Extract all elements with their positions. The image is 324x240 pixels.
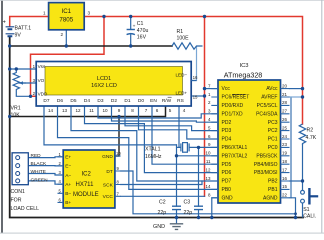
wire: CON1 GREEN to HX711 A+ — [28, 181, 63, 184]
svg-text:C2: C2 — [159, 200, 166, 206]
svg-text:Vss: Vss — [38, 64, 46, 69]
svg-text:PC5/SCL: PC5/SCL — [257, 103, 278, 109]
svg-text:15: 15 — [282, 184, 288, 189]
svg-text:D6: D6 — [57, 98, 63, 104]
svg-text:470u: 470u — [137, 28, 149, 34]
svg-text:16X2 LCD: 16X2 LCD — [91, 83, 117, 89]
svg-text:PD4: PD4 — [222, 137, 232, 143]
wire: red vertical +5V drop to IC3 Vcc / LED+ / HX711 VCC — [204, 17, 206, 197]
svg-text:PD5: PD5 — [222, 162, 232, 168]
svg-text:FOR: FOR — [11, 197, 22, 203]
wire: HX711 VCC to +5V — [121, 195, 205, 197]
wire: HX711 SCK jog to IC3 pin 13 net — [121, 181, 202, 185]
IC3 right pin names — [254, 86, 278, 201]
IC3 right pin stubs — [281, 89, 290, 198]
ground symbol GND — [153, 218, 183, 231]
IC3 left pin names — [222, 86, 250, 201]
svg-text:24: 24 — [282, 134, 288, 139]
svg-text:PC3: PC3 — [268, 120, 278, 126]
svg-text:R2: R2 — [307, 127, 314, 133]
svg-text:E+: E+ — [65, 155, 71, 161]
HX711 right pin stubs — [115, 156, 121, 196]
svg-text:1: 1 — [43, 11, 46, 16]
svg-text:PB2: PB2 — [268, 179, 278, 185]
svg-text:PD7: PD7 — [222, 179, 232, 185]
svg-text:14: 14 — [48, 108, 54, 113]
wire: LCD D4 to IC3 pin 12 PD6 — [85, 106, 219, 173]
svg-text:EN: EN — [150, 98, 157, 104]
IC3 left pin stubs — [211, 89, 218, 198]
capacitor C2 22p — [158, 200, 182, 216]
svg-text:Vcc: Vcc — [222, 86, 231, 92]
svg-text:VCC: VCC — [103, 194, 114, 200]
wire: VR1 wiper to LCD VO pin 3 — [19, 82, 36, 84]
HX711 left pin stubs — [58, 157, 64, 203]
switch S1 CALI — [301, 188, 319, 219]
wire: R1 to LCD LED- pin 16 — [191, 47, 196, 81]
svg-text:XTAL1: XTAL1 — [145, 146, 161, 152]
page border right — [321, 0, 322, 233]
svg-text:IC1: IC1 — [61, 8, 71, 15]
wire: IC3 AVREF pin 21 to +5V — [290, 96, 303, 98]
LCD bottom pin labels — [43, 98, 183, 104]
wire: IC3 AVcc pin 20 to +5V — [290, 88, 303, 90]
wire: IC3 PB2 pin 16 to switch net — [290, 180, 303, 182]
svg-text:22: 22 — [282, 193, 288, 198]
svg-text:PB3/MOSI: PB3/MOSI — [254, 170, 278, 176]
wire: LCD EN to IC3 pin 11 PD5 — [152, 106, 218, 164]
svg-text:100E: 100E — [177, 36, 190, 42]
svg-text:DT: DT — [106, 169, 112, 175]
svg-text:D1: D1 — [124, 98, 130, 104]
svg-text:5: 5 — [169, 108, 172, 113]
svg-text:4.7K: 4.7K — [306, 135, 317, 141]
IC3 ATmega328 — [218, 63, 281, 203]
wire: ground line y=116.5 under LCD (R/W, D-pins ground) — [10, 106, 166, 117]
svg-text:LCD1: LCD1 — [97, 76, 111, 82]
svg-text:PB5/SCK: PB5/SCK — [256, 153, 278, 159]
LCD1 16X2 LCD module — [33, 62, 198, 114]
svg-text:9: 9 — [118, 108, 121, 113]
svg-text:22p: 22p — [184, 210, 193, 216]
svg-text:23: 23 — [282, 142, 288, 147]
svg-text:27: 27 — [282, 109, 288, 114]
svg-text:10K: 10K — [11, 113, 21, 119]
svg-text:7: 7 — [145, 108, 148, 113]
svg-text:13: 13 — [205, 176, 211, 181]
page border top — [0, 0, 324, 2]
wire: C3 leads — [198, 147, 200, 217]
svg-text:20: 20 — [282, 83, 288, 88]
IC3 right pin numbers — [282, 83, 288, 197]
page border bottom — [0, 233, 324, 234]
svg-text:16V: 16V — [137, 34, 147, 40]
svg-text:B−: B− — [65, 191, 71, 197]
svg-text:AGND: AGND — [263, 195, 278, 201]
wire: LCD D2 to IC3 pin 4 PD2 — [112, 106, 219, 122]
svg-text:IC2: IC2 — [82, 172, 92, 178]
svg-text:3: 3 — [88, 11, 91, 16]
svg-text:PD2: PD2 — [222, 120, 232, 126]
wire: crystal left lead / XTAL2 to C2 drop and IC3 pin 10 — [177, 145, 219, 156]
svg-text:AVREF: AVREF — [261, 95, 277, 101]
svg-text:VO: VO — [38, 78, 45, 83]
svg-text:IC3: IC3 — [239, 63, 248, 69]
wire: CON1 WHITE to HX711 A- — [28, 174, 63, 176]
svg-text:PB6/XTAL1: PB6/XTAL1 — [222, 145, 248, 151]
wire: LCD D0 to IC3 pin 6 PD4 — [139, 106, 219, 139]
svg-text:+: + — [3, 20, 6, 26]
svg-text:PC1: PC1 — [268, 137, 278, 143]
svg-text:PC0: PC0 — [268, 145, 278, 151]
svg-text:PD0/RXD: PD0/RXD — [222, 103, 244, 109]
resistor R2 4.7K — [299, 124, 316, 145]
wire: battery negative / ground trunk and bottom ground bus — [10, 36, 303, 217]
svg-text:14: 14 — [205, 184, 211, 189]
wire: right-side vertical bus line next to IC3 — [290, 97, 292, 198]
svg-text:HX711: HX711 — [76, 182, 95, 188]
svg-text:A−: A− — [65, 173, 71, 179]
svg-text:BATT.1: BATT.1 — [15, 26, 32, 32]
svg-text:RED: RED — [31, 153, 42, 159]
svg-text:8: 8 — [131, 108, 134, 113]
svg-text:16MHz: 16MHz — [145, 154, 162, 160]
svg-text:C1: C1 — [137, 21, 144, 27]
svg-text:11: 11 — [89, 108, 94, 113]
wire: IC1 pin 2 to ground — [65, 30, 67, 46]
wire: LCD D5 to IC3 pin 13 PD7 — [71, 106, 218, 181]
svg-text:PB4/MISO: PB4/MISO — [254, 162, 278, 168]
svg-text:2: 2 — [61, 32, 64, 37]
wire: +5V to IC3 pin 7 Vcc — [205, 88, 219, 90]
svg-text:10: 10 — [116, 151, 121, 156]
svg-text:PB7/XTAL2: PB7/XTAL2 — [222, 153, 248, 159]
wire: ground line y=46 to IC1 pin2, C1, R1 — [10, 45, 172, 47]
wire: Vss line from ground trunk to LCD pin1 (through VR1 top) — [10, 68, 37, 70]
svg-text:R/W: R/W — [162, 98, 172, 104]
IC2 HX711 module — [58, 150, 122, 208]
potentiometer VR1 10K — [11, 69, 31, 119]
svg-text:PB0: PB0 — [222, 187, 232, 193]
svg-text:E−: E− — [65, 164, 71, 170]
wire: LCD LED+ pin 15 to +5V — [191, 95, 204, 97]
svg-text:LED+: LED+ — [176, 90, 188, 95]
svg-text:18: 18 — [282, 159, 288, 164]
svg-text:16: 16 — [282, 176, 288, 181]
wire: C2 leads — [176, 156, 178, 218]
svg-text:25: 25 — [282, 125, 288, 130]
svg-text:PD1/TXD: PD1/TXD — [222, 111, 244, 117]
svg-text:PB1: PB1 — [268, 187, 278, 193]
LCD bottom pin numbers — [48, 108, 186, 113]
svg-text:B+: B+ — [65, 200, 71, 206]
svg-text:RS: RS — [177, 98, 184, 104]
svg-text:PC6/RESET: PC6/RESET — [222, 95, 250, 101]
page border left — [1, 0, 3, 233]
wire: LCD D7 down and right to crystal net — [44, 106, 177, 145]
svg-text:12: 12 — [75, 108, 81, 113]
connector CON1 for load cell — [11, 153, 40, 212]
svg-text:15: 15 — [193, 95, 198, 100]
svg-text:28: 28 — [282, 100, 288, 105]
svg-text:D5: D5 — [70, 98, 76, 104]
wire: ground drop to HX711 GND pin — [115, 117, 119, 157]
svg-text:19: 19 — [282, 151, 288, 156]
svg-text:WHITE: WHITE — [31, 169, 46, 175]
svg-text:PC4/SDA: PC4/SDA — [256, 111, 278, 117]
IC1 7805 regulator — [43, 3, 91, 37]
svg-text:R1: R1 — [177, 29, 184, 35]
crystal XTAL1 16MHz — [145, 143, 189, 160]
svg-text:LED−: LED− — [176, 72, 188, 77]
battery BATT.1 — [3, 20, 32, 39]
svg-text:10: 10 — [102, 108, 108, 113]
svg-text:9V: 9V — [15, 33, 22, 39]
wire: HX711 DT down to AGND rail wire — [121, 171, 296, 214]
svg-text:17: 17 — [282, 167, 288, 172]
svg-text:11: 11 — [206, 159, 211, 164]
capacitor C3 22p — [184, 200, 204, 216]
wire: IC3 pin 8 GND to ground bus — [212, 198, 218, 218]
svg-text:GND: GND — [102, 154, 113, 160]
svg-text:D7: D7 — [43, 98, 49, 104]
wire: red branch to LCD VDD / VR1 (loop at left) — [31, 17, 105, 97]
svg-text:+: + — [133, 25, 136, 30]
svg-text:A+: A+ — [65, 182, 71, 188]
wire: LCD D1 to IC3 pin 5 PD3 — [125, 106, 218, 131]
svg-text:ATmega328: ATmega328 — [224, 70, 263, 79]
wire: LCD RS down to crystal lead — [178, 106, 180, 147]
svg-text:PD6: PD6 — [222, 170, 232, 176]
svg-text:D3: D3 — [97, 98, 103, 104]
svg-text:SCK: SCK — [103, 182, 114, 188]
svg-text:13: 13 — [62, 108, 68, 113]
LCD LED- stub pin16 — [191, 80, 196, 82]
svg-text:D0: D0 — [138, 98, 144, 104]
svg-text:MODULE: MODULE — [73, 192, 99, 198]
svg-text:26: 26 — [282, 117, 288, 122]
svg-text:16: 16 — [193, 75, 198, 80]
svg-text:PD3: PD3 — [222, 128, 232, 134]
svg-text:10: 10 — [205, 151, 211, 156]
svg-text:D4: D4 — [84, 98, 90, 104]
wire: CON1 BLACK to HX711 E- — [28, 165, 63, 167]
svg-text:VR1: VR1 — [11, 106, 21, 112]
svg-text:AVcc: AVcc — [266, 86, 278, 92]
svg-text:21: 21 — [282, 92, 288, 97]
svg-text:22p: 22p — [158, 210, 167, 216]
svg-text:BLACK: BLACK — [31, 161, 48, 167]
svg-text:D2: D2 — [111, 98, 117, 104]
svg-text:CON1: CON1 — [11, 189, 26, 195]
IC3 left pin numbers — [205, 83, 211, 197]
wire: LCD D6 to IC3 pin 14 PB0 — [58, 106, 219, 189]
wire: IC3 AGND pin 22 to ground bus — [290, 198, 296, 218]
svg-text:12: 12 — [205, 167, 211, 172]
svg-text:VDD: VDD — [38, 91, 48, 96]
wire: R2 bottom to switch S1 top — [302, 145, 304, 190]
svg-text:CALI.: CALI. — [303, 213, 316, 219]
svg-text:7805: 7805 — [59, 17, 73, 24]
capacitor C1 — [127, 17, 149, 47]
svg-text:GND: GND — [153, 224, 165, 230]
resistor R1 100E — [172, 29, 203, 49]
svg-text:C3: C3 — [184, 200, 191, 206]
svg-text:GREEN: GREEN — [31, 177, 49, 183]
svg-text:6: 6 — [156, 108, 159, 113]
svg-text:GND: GND — [222, 195, 234, 201]
wire: CON1 RED to HX711 E+ — [28, 156, 63, 159]
wire: switch S1 bottom to ground bus — [302, 203, 304, 217]
load cell wire labels — [31, 153, 49, 183]
wire: LCD D3 to IC3 pin 3 PD1 — [98, 106, 218, 118]
wire: crystal right lead / XTAL1 to IC3 pin 9 — [189, 146, 218, 148]
svg-text:LOAD CELL: LOAD CELL — [11, 206, 40, 212]
svg-text:S1: S1 — [303, 207, 309, 213]
svg-text:PC2: PC2 — [268, 128, 278, 134]
wire: +9V red rail from battery to top-right corner, down right side to R2 — [10, 17, 303, 125]
svg-text:4: 4 — [183, 108, 186, 113]
